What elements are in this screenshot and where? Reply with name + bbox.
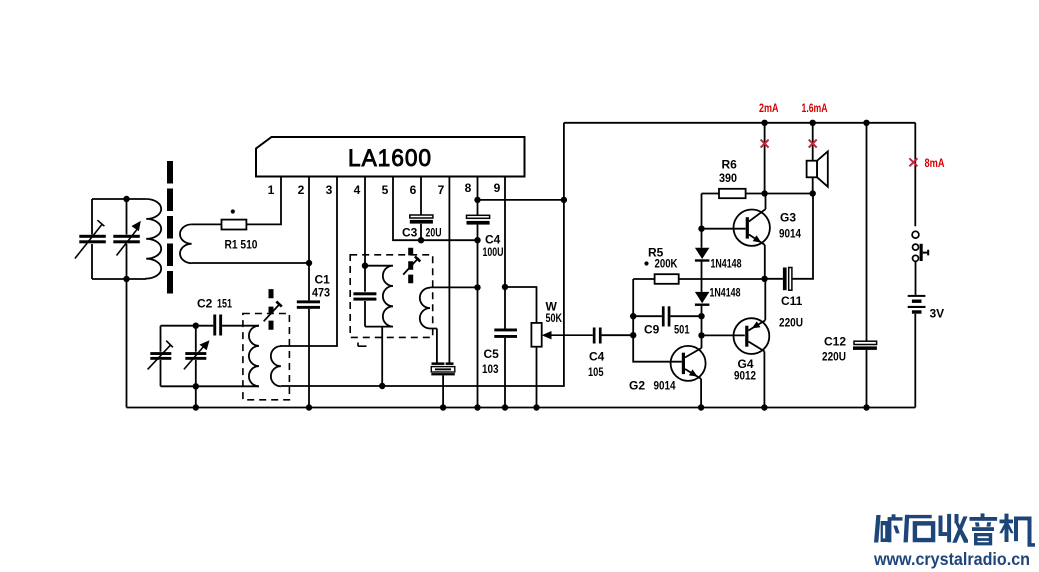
capacitor C9 plates bbox=[662, 306, 671, 326]
junction pin8 ground bbox=[474, 404, 480, 410]
wire osc bottom to ground rail bbox=[195, 386, 197, 407]
junction C4b wire bbox=[630, 332, 636, 338]
svg-text:473: 473 bbox=[312, 286, 330, 300]
svg-text:LA1600: LA1600 bbox=[348, 145, 432, 172]
speaker bbox=[812, 123, 814, 161]
svg-text:C9: C9 bbox=[644, 323, 660, 337]
glyph kuang bbox=[874, 515, 881, 543]
junction pin8 Vcc branch bbox=[474, 197, 480, 203]
svg-text:390: 390 bbox=[719, 171, 737, 185]
junction antenna bottom bbox=[123, 276, 129, 282]
capacitor C4b 105 plates bbox=[593, 328, 602, 344]
svg-text:R1 510: R1 510 bbox=[225, 238, 258, 252]
transistor G2 9014 bbox=[671, 346, 706, 408]
wire ceramic filter to ground bbox=[442, 375, 444, 407]
svg-text:5: 5 bbox=[382, 183, 389, 197]
junction diode top / G3 base bbox=[698, 226, 704, 232]
junction T2 primary top / pin4 bbox=[362, 263, 368, 269]
wire T2 secondary top to pin8 line bbox=[430, 286, 478, 288]
svg-text:G2: G2 bbox=[629, 379, 645, 393]
svg-text:2mA: 2mA bbox=[759, 101, 779, 115]
svg-text:151: 151 bbox=[217, 297, 232, 311]
svg-text:100U: 100U bbox=[483, 245, 504, 259]
svg-text:R6: R6 bbox=[722, 158, 738, 172]
svg-text:www.crystalradio.cn: www.crystalradio.cn bbox=[873, 549, 1030, 569]
svg-text:103: 103 bbox=[482, 362, 499, 376]
inductor T2 primary coil bbox=[365, 266, 393, 327]
measure mark X 8mA bbox=[909, 158, 917, 166]
svg-text:2: 2 bbox=[298, 183, 305, 197]
wire node to speaker bottom bbox=[765, 193, 813, 195]
battery B1 3V bbox=[908, 295, 926, 314]
T1 adjustable core bbox=[269, 289, 274, 330]
wire top supply rail bbox=[564, 122, 915, 124]
select marker dot above R1 bbox=[231, 209, 235, 213]
wire C9 left bbox=[633, 315, 701, 317]
wire pot bottom to ground bbox=[536, 347, 538, 408]
svg-text:501: 501 bbox=[674, 323, 690, 337]
watermark logo bbox=[874, 513, 1035, 546]
junction speaker top rail 1.6mA bbox=[810, 120, 816, 126]
inductor T1 primary coil bbox=[249, 326, 259, 387]
wire pin3 to T1 secondary top bbox=[280, 177, 337, 347]
transistor G4 9012 bbox=[734, 279, 770, 408]
svg-text:3: 3 bbox=[326, 183, 333, 197]
svg-text:9014: 9014 bbox=[654, 379, 676, 393]
svg-text:6: 6 bbox=[410, 183, 417, 197]
svg-text:C4: C4 bbox=[589, 350, 605, 364]
wire secondary bottom to pin2 line bbox=[192, 262, 309, 264]
wire battery branch from top rail bbox=[914, 123, 916, 226]
inductor L1 antenna primary coil bbox=[146, 199, 161, 279]
junction C12 top rail bbox=[863, 120, 869, 126]
variable capacitor Ca1 arrow bbox=[75, 220, 105, 258]
svg-text:9012: 9012 bbox=[734, 369, 756, 383]
wire T2 secondary bottom to ceramic filter bbox=[436, 329, 438, 363]
variable capacitor Cb2 arrow bbox=[184, 347, 203, 370]
pot wiper arrow bbox=[549, 334, 593, 336]
resistor R5 bbox=[633, 278, 764, 280]
junction filter ground bbox=[440, 404, 446, 410]
wire battery to ground rail bbox=[914, 314, 916, 408]
resistor R1 bbox=[222, 220, 247, 230]
wire pin7 to ceramic filter bbox=[448, 177, 450, 363]
measure mark X 2mA bbox=[761, 140, 769, 148]
junction C12 ground bbox=[863, 404, 869, 410]
junction pin9 audio takeoff bbox=[502, 284, 508, 290]
wire C2 to T1 primary bbox=[222, 325, 259, 327]
svg-text:220U: 220U bbox=[779, 316, 803, 330]
T2 adjustable core bbox=[408, 248, 413, 284]
junction C9 right bbox=[698, 313, 704, 319]
junction output node bbox=[761, 276, 767, 282]
svg-text:C5: C5 bbox=[484, 347, 500, 361]
capacitor C5 plates bbox=[494, 329, 517, 338]
ceramic filter 455kHz bbox=[432, 362, 454, 365]
svg-text:3V: 3V bbox=[930, 307, 945, 321]
svg-text:7: 7 bbox=[438, 183, 445, 197]
diode D1 1N4148 bbox=[695, 248, 710, 259]
variable capacitor Cb1 branch bbox=[160, 326, 162, 387]
wire pin4 to T2 primary top bbox=[364, 177, 366, 266]
wire G2 base vertical node bbox=[633, 279, 682, 362]
wire pin6 to C3 bbox=[420, 177, 422, 241]
variable capacitor Ca1 branch bbox=[91, 199, 93, 279]
svg-text:1: 1 bbox=[268, 183, 275, 197]
inductor T1 secondary coil bbox=[271, 346, 281, 386]
junction R6 G3 collector bbox=[761, 190, 767, 196]
junction riser top rail 2mA bbox=[761, 120, 767, 126]
potentiometer W 50K bbox=[531, 323, 541, 347]
glyph yin bbox=[981, 513, 985, 517]
svg-text:4: 4 bbox=[354, 183, 361, 197]
svg-text:1N4148: 1N4148 bbox=[711, 257, 742, 271]
transformer T2 shield dashed box bbox=[350, 255, 433, 338]
variable capacitor Ca2 branch bbox=[126, 199, 128, 279]
junction osc ground bbox=[193, 404, 199, 410]
junction antenna top bbox=[123, 196, 129, 202]
svg-text:220U: 220U bbox=[822, 350, 846, 364]
junction T2 primary bottom on Vcc line bbox=[379, 383, 385, 389]
junction pin5 wire at pin8 line bbox=[474, 237, 480, 243]
variable capacitor Cb1 arrow bbox=[148, 341, 173, 370]
junction G2 collector / G4 base bbox=[698, 332, 704, 338]
T2 shield ground tab mark bbox=[358, 343, 367, 347]
capacitor C2 plates bbox=[213, 315, 222, 336]
capacitor inside T2 (primary parallel) bbox=[364, 266, 366, 327]
wire Vcc line left portion to T1 secondary bottom bbox=[281, 385, 382, 387]
junction osc top bbox=[193, 323, 199, 329]
wire T2 primary bottom drop to Vcc line bbox=[381, 327, 383, 386]
current label 8mA bbox=[925, 156, 945, 170]
wire pin9 line through C5 down to ground bbox=[504, 177, 506, 408]
diode D2 1N4148 bbox=[695, 292, 710, 303]
op-amp U1 IC LA1600 body bbox=[256, 137, 525, 177]
junction C9 left bbox=[630, 313, 636, 319]
capacitor C1 plates bbox=[297, 300, 320, 308]
ground rail bbox=[127, 407, 916, 409]
transistor G3 9014 bbox=[702, 194, 770, 279]
glyph ji bbox=[1000, 520, 1014, 524]
junction G4 collector ground bbox=[761, 404, 767, 410]
oscillator tank loop wires bbox=[161, 326, 260, 387]
svg-text:C12: C12 bbox=[824, 335, 846, 349]
wire Vcc riser and supply line y386 bbox=[382, 123, 564, 386]
wire C4b to G2 base node bbox=[602, 334, 634, 336]
variable capacitor Cb2 branch bbox=[195, 326, 197, 387]
svg-text:50K: 50K bbox=[546, 311, 563, 325]
svg-text:C3: C3 bbox=[402, 226, 418, 240]
wire pin1 to R1 bbox=[246, 177, 281, 225]
wire secondary top to R1 bbox=[192, 223, 222, 225]
svg-text:20U: 20U bbox=[426, 226, 442, 240]
wire pin9 to volume pot top bbox=[505, 287, 537, 323]
junction C1 ground bbox=[306, 404, 312, 410]
antenna tuned loop: top and bottom wires bbox=[92, 199, 146, 279]
wire node to G4 base bbox=[702, 334, 745, 336]
wire diode chain vertical bbox=[701, 194, 703, 349]
svg-text:C2: C2 bbox=[197, 297, 213, 311]
ferrite rod core bbox=[167, 161, 173, 294]
wire switch to battery bbox=[915, 261, 917, 295]
capacitor C11 220U plates bbox=[765, 194, 813, 279]
svg-text:8: 8 bbox=[465, 181, 472, 195]
junction G2 emitter ground bbox=[698, 404, 704, 410]
junction riser pin8 wire bbox=[561, 197, 567, 203]
svg-text:C11: C11 bbox=[781, 294, 803, 308]
resistor R6 bbox=[702, 193, 765, 195]
select marker dot before 200K bbox=[644, 261, 648, 265]
inductor L2 antenna secondary coil bbox=[180, 224, 192, 263]
svg-text:1.6mA: 1.6mA bbox=[802, 101, 828, 115]
current label 1.6mA bbox=[802, 101, 828, 115]
junction C5 ground bbox=[502, 404, 508, 410]
measure mark X 1.6mA bbox=[809, 140, 817, 148]
junction osc bottom bbox=[193, 383, 199, 389]
junction speaker bottom bbox=[810, 190, 816, 196]
wire antenna down to ground rail bbox=[126, 279, 128, 408]
current label 2mA bbox=[759, 101, 779, 115]
wire Vcc: pin8 branch right to riser bbox=[478, 199, 564, 201]
glyph shou bbox=[939, 516, 943, 537]
svg-text:9: 9 bbox=[494, 181, 501, 195]
junction secondary top pin8 line bbox=[474, 284, 480, 290]
svg-text:1N4148: 1N4148 bbox=[710, 286, 741, 300]
wire pin2 down with junction to ground rail bbox=[308, 177, 310, 408]
svg-text:9014: 9014 bbox=[779, 227, 801, 241]
junction secondary bottom pin2 bbox=[306, 260, 312, 266]
inductor T2 secondary coil bbox=[420, 288, 437, 329]
switch S1 bbox=[912, 231, 928, 261]
variable capacitor Ca2 arrow bbox=[117, 229, 138, 256]
capacitor C3 electrolytic plates bbox=[410, 215, 433, 218]
capacitor C4 electrolytic plates bbox=[467, 215, 490, 218]
capacitor C12 220U electrolytic bbox=[866, 123, 868, 408]
glyph shi bbox=[905, 515, 932, 518]
svg-text:8mA: 8mA bbox=[925, 156, 945, 170]
wire pin8 line through C4 down to ground bbox=[477, 177, 479, 408]
wire G3 collector riser to top rail bbox=[764, 123, 766, 194]
junction C3 bottom on pin5 wire bbox=[418, 237, 424, 243]
svg-text:C1: C1 bbox=[315, 273, 331, 287]
wire pin5 down and right to pin8 line (C3 ground wire) bbox=[393, 177, 478, 241]
svg-text:200K: 200K bbox=[655, 257, 678, 271]
transformer T1 shield dashed box bbox=[243, 314, 290, 400]
junction pot ground bbox=[533, 404, 539, 410]
svg-text:105: 105 bbox=[588, 365, 604, 379]
svg-text:G3: G3 bbox=[780, 211, 796, 225]
